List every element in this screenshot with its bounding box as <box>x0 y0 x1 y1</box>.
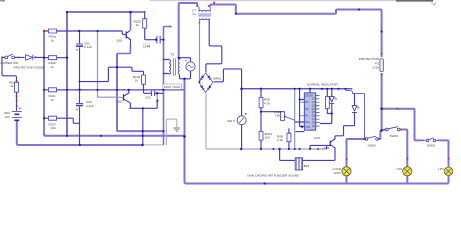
svg-text:SW01: SW01 <box>427 144 436 148</box>
switch SW02 <box>365 136 378 140</box>
svg-text:4.7k: 4.7k <box>264 101 270 105</box>
svg-text:PO: PO <box>305 100 309 104</box>
voltmeter M01 <box>237 113 247 125</box>
transistor Q03 <box>330 139 335 148</box>
capacitor C01 <box>144 44 150 48</box>
wire SW04 row lead-in <box>422 139 441 141</box>
svg-text:1k: 1k <box>51 98 55 102</box>
wire R01 to battery <box>16 92 18 122</box>
fuse F01 PROTECTION <box>380 59 384 72</box>
wire buzzer feed <box>280 149 295 160</box>
svg-text:LP01: LP01 <box>334 171 342 175</box>
capacitor C03 <box>76 103 83 110</box>
svg-text:10V: 10V <box>265 136 271 140</box>
wire SW02 row to lamp LP01 <box>347 130 381 166</box>
transformer T02 <box>169 58 179 75</box>
svg-text:CAL: CAL <box>305 120 311 124</box>
label PROTECTION fuse <box>359 57 380 69</box>
wire VR01 tap <box>261 111 283 113</box>
svg-text:LP0: LP0 <box>397 167 403 171</box>
resistor R08 <box>259 97 263 107</box>
wire top-left purple loop horizontal <box>67 11 131 13</box>
wire purple vertical x119 Q-chain <box>117 54 164 132</box>
wire R0B column <box>288 128 290 149</box>
wire purple row y135.8 <box>44 134 185 136</box>
bridge rectifier BR01 <box>199 73 213 93</box>
wire AC source loop <box>179 58 190 79</box>
svg-text:T2: T2 <box>171 52 175 56</box>
wire LED2 vertical <box>335 94 355 140</box>
resistor R105 <box>48 88 56 92</box>
wire col x97.5 <box>98 31 124 98</box>
zener ZD01 <box>259 132 263 141</box>
transformer T04 <box>198 7 211 24</box>
wire T4 bottom-left pin to bridge <box>199 19 201 82</box>
switch SW04 <box>426 138 436 142</box>
fuse F1 column lower part <box>381 73 383 130</box>
wire col x156.6 <box>156 93 158 101</box>
wire bus y88.8 <box>242 88 353 90</box>
wire capacitor column x79.5 <box>79 31 81 145</box>
wire row y31 R101 <box>44 31 126 35</box>
svg-text:SW02: SW02 <box>368 144 377 148</box>
red pin ticks <box>1 2 449 160</box>
ground <box>173 128 180 132</box>
svg-text:T4: T4 <box>192 12 196 16</box>
svg-text:PROTECTION DIODE: PROTECTION DIODE <box>14 66 45 70</box>
wire IC left stub y131.6 <box>296 131 305 133</box>
top window border remnant <box>150 0 434 2</box>
svg-text:Q02: Q02 <box>117 100 123 104</box>
pot VR01 <box>281 112 295 121</box>
svg-text:C01: C01 <box>145 44 151 48</box>
lamp LP03 <box>444 167 453 176</box>
wire left purple vertical bus x64 <box>66 11 68 136</box>
svg-text:C02: C02 <box>145 95 151 99</box>
resistor R102 <box>143 19 147 28</box>
wire LED2 branch row <box>346 89 365 139</box>
svg-text:Q03: Q03 <box>324 146 330 150</box>
svg-text:10k: 10k <box>275 114 280 118</box>
wire col x299.6 to IC pin <box>300 89 305 127</box>
transistor Q02 <box>124 93 130 102</box>
svg-text:TR: TR <box>305 107 309 111</box>
resistor R107 <box>48 116 56 120</box>
wire R104 branch <box>117 67 164 93</box>
wire purple row y90.5 <box>44 89 184 91</box>
battery B01 <box>12 107 22 120</box>
svg-text:0.5A: 0.5A <box>373 66 380 70</box>
AC source V01 <box>185 60 195 71</box>
wire IC top stub <box>309 89 311 93</box>
IC01 timer chip <box>301 93 320 130</box>
buzzer BZ01 <box>295 158 302 170</box>
svg-text:240 V: 240 V <box>227 119 236 123</box>
svg-text:2.2k: 2.2k <box>277 138 283 142</box>
svg-text:NORMAL INDICATOR: NORMAL INDICATOR <box>307 83 338 87</box>
svg-text:10k: 10k <box>51 126 56 130</box>
wire rail y149 mid <box>241 148 326 150</box>
wire lamp bottoms to rail <box>347 176 449 184</box>
LED D03 overload indicator <box>352 106 360 113</box>
wire T2 left-bottom pin column <box>164 27 170 145</box>
wire Q02 collector/emitter stubs <box>129 90 131 109</box>
resistor R01 <box>15 82 19 92</box>
wire Q03 base row <box>310 145 330 149</box>
wire IC pin stubs left <box>295 100 305 123</box>
svg-text:2.1uF: 2.1uF <box>86 104 94 108</box>
wire col x294.7 <box>294 89 296 149</box>
wire ground feed <box>166 119 176 145</box>
svg-text:BR01: BR01 <box>214 76 222 80</box>
switch SW03 <box>386 127 400 131</box>
wire battery column top loop <box>2 57 17 82</box>
wire Q01 collector to top rail <box>130 12 132 30</box>
svg-text:1k: 1k <box>10 84 14 88</box>
svg-text:VSS: VSS <box>305 125 310 129</box>
wire row y58 R103 <box>44 57 68 59</box>
resistor R10 indicator series <box>325 97 329 109</box>
wire R10 branch beside LED1 <box>327 89 332 114</box>
lamp LP02 <box>403 167 412 176</box>
wire purple top row right of T4 <box>210 5 381 58</box>
label box 240V/50HZ <box>163 84 182 89</box>
wire T4 bottom-right pin loop to bridge <box>209 19 222 63</box>
svg-text:1k: 1k <box>135 78 139 82</box>
resistor R103 <box>48 56 56 60</box>
diode D01 PROTECTION DIODE <box>26 55 33 61</box>
wire col x142.6 <box>142 108 144 145</box>
wire LED1 branch <box>320 89 332 124</box>
svg-text:12V: 12V <box>5 115 11 119</box>
wire purple T4 feed from left <box>179 3 198 59</box>
svg-text:0.1uF: 0.1uF <box>84 45 92 49</box>
wire SW04 row to lamp LP03 <box>440 140 449 166</box>
wire R08 zener column <box>260 89 262 149</box>
wire left bus x44 <box>43 31 45 135</box>
LED D02 normal indicator <box>329 97 337 104</box>
capacitor C04 <box>151 91 154 96</box>
wire purple AC column down to bottom rail <box>185 79 449 184</box>
transistor Q01 <box>126 30 130 45</box>
resistor R101 <box>48 29 56 33</box>
resistor R104 <box>142 75 146 84</box>
capacitor C02 <box>76 44 83 51</box>
wire Q03 collector down to buzzer <box>303 148 335 161</box>
svg-text:1k: 1k <box>51 38 55 42</box>
lamp LP01 <box>342 167 351 176</box>
switch SW01 POWER SW <box>5 54 15 59</box>
wire purple row y145 battery rail <box>17 122 143 146</box>
svg-text:1k: 1k <box>136 23 140 27</box>
wire gray row y144.6 extension <box>143 144 164 146</box>
svg-text:Q01: Q01 <box>117 39 123 43</box>
svg-text:SW03: SW03 <box>390 134 399 138</box>
svg-text:PL: PL <box>305 114 309 118</box>
wire bridge right vertex branch <box>214 69 242 89</box>
svg-text:240V / 50Hz: 240V / 50Hz <box>164 85 181 89</box>
wire Q01 emitter down jog <box>117 46 130 54</box>
wire purple branch to lamp3 row <box>382 109 422 141</box>
wire R102 to C01 <box>145 28 164 40</box>
svg-text:1k: 1k <box>51 65 55 69</box>
wire voltmeter column <box>241 89 243 149</box>
wire R102 feed from top rail <box>131 12 145 19</box>
wire row y118.2 R107 elbow to cap column <box>44 118 80 123</box>
wire row y108.3 under Q02 <box>129 101 157 109</box>
svg-text:LP0: LP0 <box>438 167 444 171</box>
svg-text:BZ1: BZ1 <box>304 164 310 168</box>
wire SW03 row to lamp LP02 <box>382 130 408 167</box>
resistor R0B <box>287 133 291 142</box>
wire POWER SW row y57.4 <box>2 56 44 58</box>
svg-text:IC01: IC01 <box>314 136 321 140</box>
svg-text:OVALOADING WITH BUZER SOUND: OVALOADING WITH BUZER SOUND <box>247 173 300 177</box>
wire bridge top vertex branch <box>206 63 222 73</box>
wire T2 left pins <box>164 60 170 74</box>
wire bridge bottom column to rail <box>206 93 241 149</box>
wire branch to cap node <box>80 67 118 81</box>
